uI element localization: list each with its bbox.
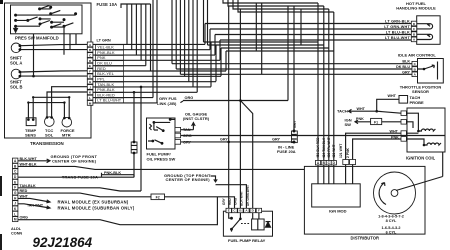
wire from pin A	[93, 43, 205, 45]
wire from pin D	[93, 59, 220, 61]
ALDL pin F	[13, 185, 18, 190]
ALDL pin D	[13, 174, 18, 179]
svg-text:J: J	[89, 85, 91, 89]
svg-text:DISTRIBUTOR: DISTRIBUTOR	[351, 236, 380, 241]
svg-text:M: M	[14, 218, 17, 222]
svg-text:BLK: BLK	[402, 60, 410, 64]
in-line fuse 20A symbol	[292, 131, 298, 143]
wire from pin L	[93, 97, 153, 99]
svg-text:MTR: MTR	[62, 132, 71, 137]
svg-text:DK BLU: DK BLU	[97, 60, 112, 65]
rotor arrow arc	[379, 183, 386, 205]
svg-text:E: E	[14, 180, 16, 184]
distributor connector pin A	[315, 161, 320, 165]
wire from pin C	[93, 54, 215, 56]
wire 2 PNK	[353, 139, 401, 160]
svg-text:FUSE 20A: FUSE 20A	[277, 149, 296, 154]
distributor feed wire 453 BLK-RED	[204, 0, 319, 161]
temp sensor wires to pins M,L	[28, 97, 33, 118]
vertical to GRY fuse	[293, 6, 295, 131]
svg-text:L: L	[14, 212, 16, 216]
ALDL pin K	[13, 206, 18, 211]
svg-text:PNK-BLK: PNK-BLK	[97, 87, 115, 92]
wire label PPL (pin H)	[96, 77, 124, 82]
relay internal coil	[252, 219, 265, 230]
ign sw arrow wire	[355, 120, 371, 124]
svg-text:92J21864: 92J21864	[33, 235, 93, 250]
relay vertical GRY to pin E	[228, 6, 230, 208]
pres sw ground arrow	[14, 26, 18, 32]
relay pin F	[256, 208, 261, 212]
wire ORG bus long	[181, 135, 445, 137]
svg-text:HANDLING MODULE: HANDLING MODULE	[396, 6, 436, 11]
fuse 10A bus line	[121, 4, 151, 8]
wire from pin B	[93, 49, 210, 51]
distributor connector pin C	[326, 161, 331, 165]
TPS feed verticals from top edge	[171, 0, 173, 64]
svg-text:RED: RED	[97, 66, 106, 71]
svg-text:OIL PRESS SW: OIL PRESS SW	[147, 156, 176, 161]
svg-text:424 TAN-BLK: 424 TAN-BLK	[322, 137, 326, 158]
coil pin 1 WHT	[401, 111, 406, 116]
svg-text:430 PPL-WHT: 430 PPL-WHT	[327, 137, 331, 158]
distributor connector pin B	[321, 161, 326, 165]
svg-text:GRY: GRY	[222, 197, 226, 205]
svg-text:LT BLU-WHT: LT BLU-WHT	[97, 98, 122, 103]
svg-text:ORG: ORG	[185, 96, 194, 100]
fuse F2	[151, 194, 165, 200]
relay pin E	[226, 208, 231, 212]
TPS pin A	[412, 72, 417, 77]
svg-text:GRY: GRY	[272, 137, 280, 141]
wire label LT BLU-WHT (pin M)	[96, 98, 124, 103]
IAC pin C	[411, 27, 416, 32]
ALDL wire B WHT-BLK	[18, 166, 305, 169]
distributor rotor circle	[374, 172, 416, 214]
ALDL pin A	[13, 158, 18, 163]
rotor center	[391, 190, 398, 197]
relay pin B	[238, 208, 243, 212]
svg-text:SOL B: SOL B	[10, 85, 22, 90]
svg-text:TAN-WHT: TAN-WHT	[27, 203, 44, 207]
TPS pin B	[412, 67, 417, 72]
svg-text:6 CYL: 6 CYL	[386, 230, 397, 234]
scan edge artifact left bottom	[0, 234, 2, 250]
wire shift sol A to pins A,B	[21, 44, 88, 49]
junction on wire J	[140, 86, 143, 89]
force motor wires joining temp sensor wires	[28, 97, 69, 117]
wire label BLK-YEL (pin G)	[96, 71, 124, 76]
ALDL pin E	[13, 179, 18, 184]
transmission box	[5, 3, 92, 138]
ALDL wire G RED to fuse F2	[18, 193, 151, 197]
svg-text:SENSOR: SENSOR	[412, 89, 429, 94]
switch pin ORG	[175, 133, 181, 138]
svg-text:F: F	[258, 209, 260, 213]
ALDL wire A BLK-WHT to ground	[18, 159, 50, 163]
svg-text:LT GRN: LT GRN	[97, 38, 111, 43]
wire tach to coil pin 1	[377, 111, 401, 113]
svg-text:TAN-BLK: TAN-BLK	[20, 184, 36, 188]
svg-text:IGN MOD: IGN MOD	[329, 209, 347, 214]
svg-text:DK BLU: DK BLU	[396, 65, 410, 69]
svg-text:FUSE 10A: FUSE 10A	[97, 2, 118, 7]
svg-text:2 PNK: 2 PNK	[346, 147, 350, 158]
svg-text:ALDL: ALDL	[11, 227, 22, 231]
ignition coil box	[407, 108, 445, 152]
svg-text:SOL A: SOL A	[10, 61, 22, 66]
svg-text:WHT: WHT	[357, 107, 366, 111]
svg-text:CENTER OF ENGINE): CENTER OF ENGINE)	[52, 159, 97, 164]
svg-text:WHT: WHT	[20, 194, 29, 198]
rotor pickup line	[396, 152, 443, 191]
svg-text:(INST CLSTR): (INST CLSTR)	[183, 116, 210, 121]
svg-text:PROBE: PROBE	[410, 100, 425, 105]
oil gauge arrow from TAN wire	[192, 123, 196, 130]
trans connector pin L	[87, 95, 93, 100]
riser for pin M wire	[156, 0, 158, 103]
svg-text:BLK-YEL: BLK-YEL	[97, 71, 114, 76]
trans connector pin M	[87, 101, 93, 106]
TPS pin C	[412, 61, 417, 66]
trans connector pin H	[87, 79, 93, 84]
wire ORG from fus link with jog	[180, 101, 288, 209]
svg-text:M: M	[89, 101, 92, 105]
svg-text:F1: F1	[374, 120, 378, 124]
svg-text:PPL: PPL	[97, 76, 105, 81]
trans connector pin F	[87, 69, 93, 74]
svg-text:423 WHT: 423 WHT	[332, 144, 336, 158]
distributor feed wire 424 TAN-BLK	[208, 0, 324, 161]
svg-text:DK GRN-WHT: DK GRN-WHT	[246, 185, 250, 206]
trans connector pin K	[87, 90, 93, 95]
svg-text:F: F	[89, 69, 91, 73]
svg-text:RWAL MODULE (SUBURBAN ONLY): RWAL MODULE (SUBURBAN ONLY)	[58, 206, 135, 211]
bundle verticals pins G-K from top edge	[184, 0, 186, 76]
relay pin D	[250, 208, 255, 212]
svg-text:J: J	[14, 202, 16, 206]
svg-text:GRY: GRY	[293, 120, 297, 128]
trans connector pin D	[87, 58, 93, 63]
svg-text:WHT: WHT	[388, 94, 397, 98]
svg-text:E: E	[228, 209, 230, 213]
svg-text:L: L	[89, 96, 91, 100]
svg-text:1-6-5-4-3-2: 1-6-5-4-3-2	[382, 226, 401, 230]
ALDL pin J	[13, 201, 18, 206]
fuel pump oil press switch box	[147, 118, 176, 149]
vertical mid 288 to fus link wire	[287, 6, 289, 101]
IAC coil 2	[417, 34, 433, 39]
svg-text:TRANSMISSION: TRANSMISSION	[30, 141, 64, 146]
svg-text:121 WHT: 121 WHT	[339, 143, 343, 158]
ALDL pin L	[13, 211, 18, 216]
svg-text:TAN-BLK: TAN-BLK	[97, 82, 114, 87]
pressure switch manifold box	[11, 5, 83, 34]
svg-text:BLK-RED: BLK-RED	[97, 92, 115, 97]
wire F2 RED to relay pin C	[165, 197, 235, 209]
IAC pin D	[411, 21, 416, 26]
ALDL pin B	[13, 163, 18, 168]
temp sensor	[26, 118, 36, 126]
distributor box	[304, 166, 425, 234]
top corner feeds to middle verticals	[223, 0, 334, 12]
switch contacts lower	[151, 140, 154, 143]
ALDL wire F TAN-BLK to trans TCC wire	[18, 87, 141, 191]
trans connector pin C	[87, 53, 93, 58]
TPS box	[418, 59, 444, 84]
svg-text:CONN: CONN	[11, 232, 22, 236]
trans connector pin G	[87, 74, 93, 79]
tcc wires to pins K,J	[47, 87, 87, 117]
trans connector pin E	[87, 63, 93, 68]
wire label PNK-BLK (pin K)	[96, 87, 124, 92]
relay internal dashed link	[241, 223, 250, 225]
wire GRY to inline fuse	[181, 141, 294, 143]
svg-text:CENTER OF ENGINE): CENTER OF ENGINE)	[166, 177, 211, 182]
wire from pin E	[93, 65, 146, 67]
relay vertical ORG to pin B	[239, 9, 241, 208]
svg-text:ORG: ORG	[234, 197, 238, 205]
ALDL pin H	[13, 195, 18, 200]
wire from pin K	[93, 91, 197, 93]
switch contacts upper	[153, 121, 156, 124]
svg-text:LT BLU-BLK: LT BLU-BLK	[386, 30, 410, 34]
junction top right of switch box	[169, 118, 172, 121]
wire BLK to TPS pin C	[172, 63, 412, 65]
fuel pump relay box	[223, 211, 272, 236]
svg-text:IDLE AIR CONTROL: IDLE AIR CONTROL	[398, 52, 436, 57]
switch pin TAN	[175, 127, 181, 132]
svg-text:FUEL PUMP RELAY: FUEL PUMP RELAY	[228, 238, 266, 243]
corner mark top-left	[0, 0, 3, 4]
junction on sol B wire	[32, 75, 35, 78]
relay pin A BLK-WHT ground wire	[216, 185, 247, 209]
trans connector pin J	[87, 85, 93, 90]
svg-text:LT GRN-WHT: LT GRN-WHT	[384, 25, 410, 29]
coil internal wiring	[406, 113, 424, 145]
bus drop verticals to pin wires A-F	[126, 4, 128, 44]
pres sw wires	[16, 9, 76, 27]
ALDL wire M ORG long	[18, 219, 30, 221]
riser for pin L wire	[152, 0, 154, 98]
coil winding 2	[424, 143, 441, 145]
wire F1 to coil pin 2	[382, 121, 401, 123]
IAC coil 1	[417, 24, 433, 29]
wire from pin H	[93, 81, 216, 83]
wire from pin F	[93, 70, 226, 72]
svg-text:BLK-WHT: BLK-WHT	[240, 191, 244, 206]
ALDL pin G	[13, 190, 18, 195]
fusible link F1	[371, 118, 382, 124]
svg-text:BLK-WHT: BLK-WHT	[20, 157, 38, 161]
ALDL pin C	[13, 169, 18, 174]
svg-text:WHT-BLK: WHT-BLK	[20, 162, 37, 166]
svg-text:LINK (J/B): LINK (J/B)	[157, 101, 177, 106]
svg-text:GRY: GRY	[402, 70, 410, 74]
tcc solenoid	[45, 117, 55, 127]
wire from pin J	[93, 86, 211, 88]
wire TAN	[181, 129, 194, 131]
junction on wire K	[133, 91, 136, 94]
svg-text:453 BLK-RED: 453 BLK-RED	[316, 137, 320, 158]
wire label TAN-BLK (pin J)	[96, 82, 124, 87]
distributor feed wire 430 PPL-WHT	[221, 9, 329, 161]
wire LT BLU-WHT to IAC pin A	[220, 40, 411, 60]
relay internal switch contact	[230, 217, 233, 220]
shift solenoid A	[11, 43, 21, 53]
svg-text:RED: RED	[228, 198, 232, 205]
svg-text:E: E	[89, 64, 91, 68]
wire shift sol B to pins F,G	[21, 71, 88, 76]
pres sw switch arms	[28, 5, 74, 27]
svg-text:1-8-4-3-6-5-7-2: 1-8-4-3-6-5-7-2	[378, 214, 404, 218]
TPS potentiometer	[418, 62, 438, 80]
distributor feed wire 423 WHT	[226, 12, 334, 161]
trans connector pin A	[87, 42, 93, 47]
svg-text:SW: SW	[345, 122, 352, 127]
wire LT GRN-BLK to IAC pin D	[205, 24, 411, 45]
wire label DK BLU (pin E)	[96, 61, 124, 66]
wire LT GRN-WHT to IAC pin C	[210, 29, 411, 50]
coil pin 3 WHT	[401, 131, 406, 136]
svg-text:LT BLU-WHT: LT BLU-WHT	[385, 36, 411, 40]
distributor connector pin D	[331, 161, 336, 165]
shift solenoid B	[11, 69, 21, 79]
svg-text:F: F	[14, 186, 16, 190]
junction tach	[375, 110, 378, 113]
coil pin 4 PNK	[401, 137, 406, 142]
ALDL pin M	[13, 217, 18, 222]
wire DK BLU to TPS pin B	[176, 68, 412, 70]
svg-text:F2: F2	[156, 196, 160, 200]
svg-text:RWAL MODULE (EX SUBURBAN): RWAL MODULE (EX SUBURBAN)	[58, 199, 129, 204]
vertical mid 301	[300, 9, 302, 45]
ign module	[312, 184, 361, 207]
ALDL wire H WHT to RWAL	[18, 198, 50, 202]
svg-text:IGNITION COIL: IGNITION COIL	[406, 156, 436, 161]
coil pin 2 PNK	[401, 120, 406, 125]
wire from pin G	[93, 75, 221, 77]
svg-text:8 CYL: 8 CYL	[386, 219, 397, 223]
wire label PNK (pin D)	[96, 55, 124, 60]
wire PNK-BLK stub	[102, 173, 135, 177]
svg-text:LT GRN-BLK: LT GRN-BLK	[385, 19, 410, 23]
coil winding 1	[418, 129, 435, 131]
svg-text:SENS: SENS	[25, 132, 36, 137]
svg-text:YEL-BLK: YEL-BLK	[97, 45, 114, 50]
wire GRY to TPS pin A	[180, 73, 412, 75]
vertical mid 256 upper	[255, 3, 257, 51]
IAC pin A	[411, 37, 416, 42]
svg-text:PNK-BLK: PNK-BLK	[97, 50, 115, 55]
idle air control box	[417, 16, 440, 45]
svg-text:PNK: PNK	[97, 55, 106, 60]
svg-text:RED: RED	[20, 189, 28, 193]
ALDL wire D to trans fuse	[18, 175, 134, 178]
wire 121 WHT	[346, 133, 401, 159]
relay pin A	[244, 208, 249, 212]
IAC pin B	[411, 32, 416, 37]
trans connector pin B	[87, 47, 93, 52]
svg-text:GRY: GRY	[220, 137, 228, 141]
wire label BLK-RED (pin L)	[96, 93, 124, 98]
wire label YEL-BLK (pin B)	[96, 45, 124, 50]
relay pin C	[232, 208, 237, 212]
vertical mid 262	[261, 3, 263, 74]
scan edge artifact left middle	[0, 176, 2, 196]
force motor	[62, 117, 72, 127]
tach probe box	[399, 96, 408, 104]
wire label PNK-BLK (pin C)	[96, 50, 124, 55]
trans fuse 10A symbol	[131, 142, 137, 153]
wire tach probe	[377, 99, 399, 111]
wire LT BLU-BLK to IAC pin B	[215, 35, 411, 55]
wire label RED (pin F)	[96, 66, 124, 71]
svg-text:ORG: ORG	[20, 216, 29, 220]
relay internal diode	[266, 222, 271, 227]
wires pres box down to connector wires	[64, 26, 76, 55]
switch pin GRY	[175, 140, 181, 145]
svg-text:TACH: TACH	[337, 109, 348, 114]
coil connector pin boxes	[343, 160, 349, 165]
wire from pin M	[93, 102, 157, 104]
svg-text:PRES SW MANIFOLD: PRES SW MANIFOLD	[15, 36, 59, 41]
wires into distributor from coil connector	[346, 165, 353, 184]
pres sw contacts (dots)	[14, 14, 17, 17]
ALDL wire J TAN-WHT to RWAL	[18, 204, 50, 209]
arrow from ground label to wire	[211, 176, 218, 182]
wires distributor connector into ign mod	[317, 165, 319, 184]
svg-text:SOL: SOL	[45, 132, 54, 137]
